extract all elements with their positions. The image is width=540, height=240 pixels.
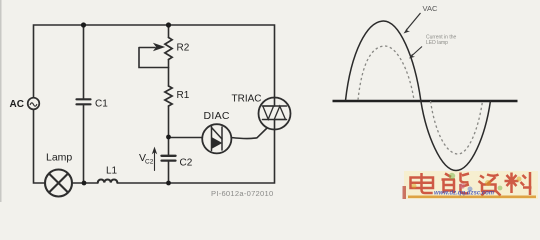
svg-text:DIAC: DIAC [204,110,230,122]
svg-text:R1: R1 [177,90,190,101]
svg-text:Lamp: Lamp [46,152,72,164]
svg-text:R2: R2 [177,43,190,54]
svg-text:AC: AC [10,99,24,110]
svg-text:C1: C1 [95,99,108,110]
svg-text:C2: C2 [180,158,193,169]
svg-text:L1: L1 [106,166,118,177]
svg-text:PI-6012a-072010: PI-6012a-072010 [211,189,273,198]
svg-text:TRIAC: TRIAC [232,94,262,105]
svg-text:VAC: VAC [423,4,438,13]
svg-text:C2: C2 [145,159,154,166]
svg-text:LED lamp: LED lamp [426,40,448,46]
